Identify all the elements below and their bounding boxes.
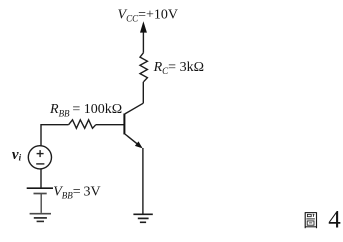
svg-text:VBB= 3V: VBB= 3V: [53, 184, 100, 200]
svg-text:RC= 3kΩ: RC= 3kΩ: [153, 60, 204, 76]
svg-text:4: 4: [328, 207, 341, 234]
